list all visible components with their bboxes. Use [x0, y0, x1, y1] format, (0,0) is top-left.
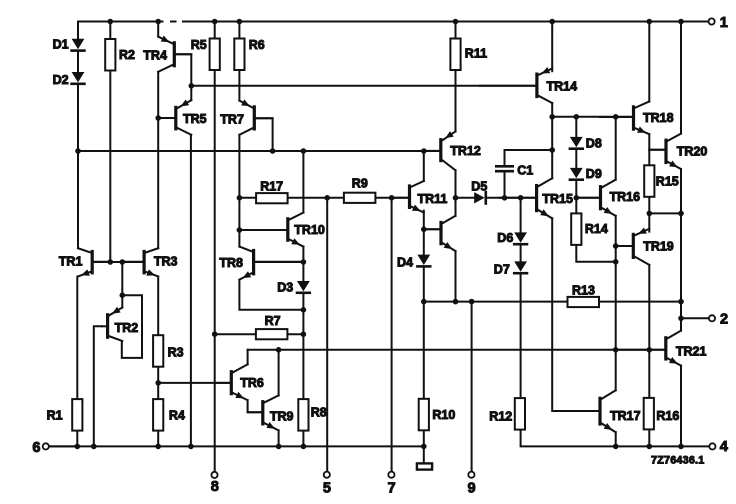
junction R4 bottom on ground rail	[155, 444, 161, 450]
wire TR4 base wire	[174, 54, 191, 86]
wire TR21 emitter lead	[680, 366, 682, 447]
wire TR6 collector riser	[247, 350, 249, 365]
transistor TR4	[173, 43, 176, 66]
transistor TR20	[664, 140, 667, 162]
junction R7 left on terminal8 line	[212, 331, 218, 337]
transistor TR18	[632, 107, 635, 129]
junction C1 top tie	[549, 147, 555, 153]
junction TR20 collector on supply rail	[678, 19, 684, 25]
resistor R4	[153, 399, 163, 431]
svg-text:TR11: TR11	[418, 192, 448, 206]
svg-text:R17: R17	[260, 180, 283, 194]
svg-text:TR3: TR3	[154, 255, 178, 269]
wire D8 top lead	[575, 117, 577, 137]
terminal 8	[211, 472, 217, 478]
resistor R17	[256, 193, 288, 203]
wire TR15 emitter to TR17 base	[552, 218, 598, 411]
wire TR2 base lead down	[94, 326, 102, 446]
junction TR5 collector on ground rail	[188, 444, 194, 450]
svg-text:D8: D8	[586, 137, 602, 151]
wire R10 bottom lead	[423, 431, 425, 447]
wire C1 top lead	[505, 150, 553, 165]
terminal 2	[709, 315, 715, 321]
terminal 1	[709, 18, 715, 24]
wire D1-D2 link	[77, 53, 79, 72]
junction TR8 base on D3 line	[301, 259, 307, 265]
wire R8 bottom lead	[302, 431, 304, 447]
junction TR14 collector rail start	[549, 114, 555, 120]
diode D8	[570, 137, 583, 147]
svg-text:R6: R6	[249, 38, 265, 52]
svg-text:9: 9	[468, 481, 476, 497]
transistor TR19	[632, 234, 635, 257]
junction TR19 base	[613, 243, 619, 249]
wire R3 to R4 node	[157, 367, 159, 400]
wire D5 to TR15 base	[486, 197, 536, 199]
wire TR16 emitter down to TR17 collector	[615, 216, 617, 390]
wire TR8 base lead	[255, 261, 303, 263]
svg-text:TR7: TR7	[220, 112, 244, 126]
svg-text:1: 1	[720, 15, 728, 31]
junction D8 top on rail	[574, 114, 580, 120]
terminal 4	[709, 443, 715, 449]
resistor R7	[256, 329, 288, 339]
wire R2 bottom lead	[109, 71, 111, 262]
wire TR2 emitter stub	[121, 295, 123, 307]
wire TR10 base lead row	[239, 229, 286, 231]
wire long line y=350 to TR21 base	[248, 349, 665, 351]
junction R5 top on supply rail	[212, 19, 218, 25]
junction R8 bottom on ground rail	[301, 444, 307, 450]
diode D1	[72, 39, 85, 49]
resistor R11	[450, 39, 460, 71]
wire TR9 collector riser	[278, 350, 280, 396]
svg-text:D7: D7	[494, 263, 510, 277]
svg-text:R4: R4	[169, 409, 185, 423]
wire R17 left lead	[239, 197, 256, 199]
wire TR19 base lead	[616, 245, 632, 247]
wire TR20 collector riser	[680, 22, 682, 134]
svg-text:4: 4	[720, 439, 729, 455]
junction TR17 collector on line y350	[613, 347, 619, 353]
svg-text:8: 8	[211, 479, 219, 495]
wire node to R16	[648, 350, 650, 398]
junction TR12 collector D5 node	[453, 195, 459, 201]
wire TR10 emitter chain down	[302, 247, 304, 281]
wire terminal 2 lead	[681, 317, 709, 319]
svg-text:TR20: TR20	[677, 144, 708, 158]
wire R9 right lead to TR11 base	[375, 197, 408, 199]
svg-text:TR8: TR8	[219, 256, 243, 270]
junction TR17 emitter on rail	[613, 444, 619, 450]
junction D4 bottom node	[421, 299, 427, 305]
resistor R2	[105, 39, 115, 71]
junction R10 bottom substrate node	[421, 444, 427, 450]
diode D6	[514, 232, 527, 242]
transistor TR13	[439, 223, 442, 244]
transistor TR5	[174, 107, 177, 128]
junction R13 right on TR20 line	[678, 299, 684, 305]
wire TR5 collector down to bottom rail	[190, 135, 192, 447]
junction TR18 collector on supply rail	[647, 19, 653, 25]
wire R4 bottom lead	[157, 430, 159, 446]
wire rail y=151 to TR12 base	[78, 150, 440, 152]
svg-text:R16: R16	[656, 409, 679, 423]
junction R7 right on D3 line	[301, 331, 307, 337]
transistor TR12	[439, 140, 442, 161]
junction TR2 emitter node	[120, 292, 126, 298]
junction TR10 base	[237, 227, 243, 233]
wire top supply rail	[78, 21, 709, 23]
svg-text:C1: C1	[517, 164, 533, 178]
junction TR9 collector on line y350	[276, 347, 282, 353]
svg-text:R13: R13	[572, 284, 595, 298]
junction TR14 emitter on supply rail	[549, 19, 555, 25]
wire terminal 7 line	[391, 198, 393, 472]
svg-text:TR14: TR14	[547, 79, 578, 93]
junction TR5 base	[155, 115, 161, 121]
svg-text:D4: D4	[397, 256, 413, 270]
terminal 6	[43, 443, 49, 449]
resistor R10	[419, 399, 429, 431]
junction TR8 emitter on D3 line	[301, 307, 307, 313]
wire D6 node lead	[520, 198, 522, 233]
resistor R12	[515, 398, 525, 430]
wire TR3 emitter to R3	[157, 277, 159, 336]
junction R17-R9 terminal5 node	[324, 195, 330, 201]
svg-text:TR17: TR17	[610, 409, 641, 423]
resistor R8	[298, 399, 308, 431]
transistor TR2	[106, 315, 109, 337]
junction TR20 emitter tie	[678, 211, 684, 217]
diode D3	[297, 281, 310, 291]
svg-text:TR2: TR2	[115, 321, 139, 335]
transistor TR14	[535, 74, 538, 96]
diode D5	[474, 192, 484, 203]
junction TR16 collector on rail	[613, 114, 619, 120]
svg-text:TR15: TR15	[542, 192, 573, 206]
junction TR7 base wire end	[270, 148, 276, 154]
wire TR16 collector riser	[615, 117, 617, 180]
wire R13 right lead region	[599, 301, 681, 303]
junction R6 top on supply rail	[237, 19, 243, 25]
wire R14 bottom wire	[576, 245, 615, 262]
svg-text:R1: R1	[47, 409, 63, 423]
resistor R9	[344, 193, 376, 203]
diode D2	[72, 72, 85, 82]
resistor R13	[568, 297, 600, 307]
wire rail y=117	[552, 116, 632, 118]
wire node to R8	[302, 334, 304, 399]
svg-text:R10: R10	[432, 408, 455, 422]
transistor TR21	[664, 338, 667, 359]
junction R11 top on supply rail	[453, 19, 459, 25]
svg-text:TR21: TR21	[676, 345, 707, 359]
wire D4 to node y=302	[423, 267, 425, 301]
svg-text:TR4: TR4	[143, 49, 167, 63]
wire TR20 base lead	[649, 149, 664, 151]
wire R14 top lead	[575, 198, 577, 214]
junction R15 bottom	[647, 211, 653, 217]
svg-text:TR19: TR19	[643, 240, 674, 254]
wire D4 node to R10	[423, 302, 425, 399]
wire TR10 collector riser	[302, 151, 304, 213]
diode D7	[514, 261, 527, 271]
transistor TR6	[230, 372, 233, 394]
svg-text:TR16: TR16	[610, 190, 641, 204]
svg-text:R8: R8	[311, 406, 327, 420]
junction R2 top on supply rail	[108, 19, 114, 25]
junction TR12 base tee	[421, 148, 427, 154]
wire left vertical from top rail to D1	[77, 22, 79, 40]
junction TR13 base	[421, 227, 427, 233]
wire TR13 emitter down	[455, 251, 457, 302]
wire TR4 collector to TR5 base and TR3 collector	[157, 72, 159, 248]
junction TR2 base on ground rail	[91, 444, 97, 450]
wire node to TR16 base	[576, 197, 599, 199]
junction R16 bottom on rail	[647, 444, 653, 450]
capacitor C1	[496, 165, 512, 168]
svg-text:TR1: TR1	[59, 255, 83, 269]
wire TR13 base node to D4	[423, 229, 425, 254]
wire TR20 emitter down	[680, 169, 682, 213]
transistor TR3	[143, 252, 146, 273]
junction R1 bottom on ground rail	[75, 444, 81, 450]
wire TR9 emitter lead	[278, 430, 280, 446]
junction TR2 node on base row	[120, 259, 126, 265]
wire TR1 collector riser	[77, 151, 79, 248]
junction D9 bottom R14 top	[574, 195, 580, 201]
svg-text:5: 5	[323, 481, 331, 497]
svg-text:7Z76436.1: 7Z76436.1	[651, 454, 704, 466]
wire D9 to node	[575, 180, 577, 198]
transistor TR16	[599, 187, 602, 209]
junction terminal 9 node	[469, 299, 475, 305]
wire TR1 emitter to R1	[76, 277, 78, 400]
resistor R15	[644, 165, 654, 197]
wire TR13 base lead	[424, 228, 440, 230]
wire TR4 emitter riser	[157, 22, 159, 37]
wire R12 bottom to rail	[521, 430, 710, 446]
svg-text:2: 2	[720, 312, 728, 328]
wire D2 to node at y=151	[77, 86, 79, 151]
svg-text:D1: D1	[53, 37, 69, 51]
junction R9-TR11 base terminal7 node	[389, 195, 395, 201]
wire TR18 emitter down	[648, 134, 650, 165]
svg-text:6: 6	[32, 440, 40, 456]
resistor R3	[153, 335, 163, 367]
wire TR7 collector down to TR8	[238, 135, 240, 247]
svg-text:D5: D5	[471, 179, 487, 193]
junction D6 top on D5 node	[518, 195, 524, 201]
wire TR19 emitter riser	[648, 213, 650, 231]
svg-text:TR9: TR9	[270, 410, 294, 424]
transistor TR7	[253, 107, 256, 129]
wire TR2 mirror loop	[122, 295, 142, 358]
diode D4	[417, 255, 430, 265]
svg-text:TR18: TR18	[643, 111, 674, 125]
wire R5 to terminal 8 long line	[214, 70, 216, 472]
svg-text:D9: D9	[586, 167, 602, 181]
wire TR14 collector down	[551, 103, 553, 178]
wire TR11 emitter to TR13 base	[423, 211, 425, 230]
wire TR14 emitter riser	[551, 22, 553, 72]
transistor TR9	[261, 402, 264, 424]
wire rail y=86 to TR14 base	[191, 85, 536, 87]
svg-text:R14: R14	[585, 222, 608, 236]
junction terminal 2 tee	[678, 316, 684, 322]
junction TR21 emitter on rail	[678, 444, 684, 450]
wire TR6 emitter to TR9 base	[248, 400, 262, 412]
junction R17 left	[237, 195, 243, 201]
junction D2 chain at wire y151	[75, 148, 81, 154]
junction TR4 emitter on supply rail	[155, 19, 161, 25]
terminal 5	[324, 472, 330, 478]
junction TR13 emitter node	[453, 299, 459, 305]
wire R15-TR20 emitter tie	[649, 212, 681, 214]
wire terminal 5 line	[326, 198, 328, 472]
wire TR2 emitter node riser	[121, 262, 123, 295]
transistor TR10	[286, 219, 289, 240]
svg-text:TR12: TR12	[450, 144, 481, 158]
substrate terminal box	[417, 463, 432, 469]
wire D5 node row	[456, 197, 475, 199]
wire TR20 line down to TR21	[680, 213, 682, 330]
wire TR19 collector down	[648, 265, 650, 350]
wire D8-D9 link	[575, 149, 577, 168]
svg-text:R2: R2	[119, 48, 135, 62]
svg-text:R3: R3	[168, 346, 184, 360]
wire bottom rail left	[49, 445, 424, 447]
transistor TR17	[598, 398, 601, 424]
wire TR5 emitter stub	[190, 86, 192, 100]
wire TR11 collector riser	[423, 151, 425, 181]
junction TR10 collector on wire y151	[301, 148, 307, 154]
wire R6 top lead	[238, 22, 240, 39]
svg-text:R5: R5	[191, 38, 207, 52]
junction TR9 emitter on ground rail	[276, 444, 282, 450]
svg-text:R7: R7	[265, 314, 281, 328]
wire R3R4 node to TR6 base	[158, 382, 230, 384]
resistor R5	[210, 39, 220, 71]
wire R5 top lead	[214, 22, 216, 39]
resistor R1	[72, 399, 82, 431]
wire R11 top lead	[455, 22, 457, 39]
resistor R6	[234, 39, 244, 71]
junction R14 bottom	[613, 259, 619, 265]
wire R1 bottom lead	[76, 430, 78, 446]
wire TR18 collector riser	[648, 22, 650, 102]
resistor R14	[571, 213, 581, 245]
transistor TR1	[91, 252, 94, 273]
wire R2 top lead	[109, 22, 111, 39]
wire TR8 emitter path	[239, 280, 303, 310]
svg-text:D3: D3	[277, 280, 293, 294]
svg-text:D2: D2	[53, 73, 69, 87]
wire R16 bottom lead	[648, 430, 650, 446]
svg-text:TR10: TR10	[294, 223, 325, 237]
wire TR1-TR3 base row	[92, 261, 144, 263]
terminal 9	[468, 472, 474, 478]
wire C1 bottom lead	[504, 172, 506, 198]
transistor TR15	[535, 186, 538, 211]
wire top rail gap marks	[164, 20, 171, 24]
wire node y=302 row	[424, 301, 568, 303]
resistor R16	[644, 398, 654, 430]
svg-text:7: 7	[388, 481, 396, 497]
wire TR7 base wire	[256, 118, 273, 151]
wire D3 to node y=310	[302, 294, 304, 335]
wire terminal 9 line	[471, 302, 473, 472]
wire R7 row	[215, 333, 304, 335]
wire R15 bottom lead	[648, 198, 650, 214]
wire D7 to R12	[520, 274, 522, 397]
wire R11 bottom to TR12 emitter	[455, 70, 457, 132]
terminal 7	[388, 472, 394, 478]
wire TR17 emitter lead	[615, 432, 617, 446]
svg-text:TR5: TR5	[183, 112, 207, 126]
transistor TR11	[408, 186, 411, 207]
wire D6-D7 link	[520, 245, 522, 262]
wire R6 bottom to TR7 emitter	[238, 70, 240, 101]
svg-text:TR6: TR6	[240, 376, 264, 390]
svg-text:R9: R9	[352, 177, 368, 191]
junction R3-R4 node	[155, 380, 161, 386]
junction TR5 emitter node	[189, 83, 195, 89]
wire TR12 collector to D5 node	[455, 170, 457, 216]
junction TR19 collector on line y350	[647, 347, 653, 353]
svg-text:R11: R11	[465, 47, 487, 61]
diode D9	[570, 168, 583, 178]
transistor TR8	[252, 251, 255, 274]
wire substrate stub	[423, 446, 425, 463]
svg-text:R12: R12	[489, 410, 512, 424]
svg-text:D6: D6	[497, 231, 513, 245]
junction R2 bottom base row	[108, 259, 114, 265]
svg-text:R15: R15	[656, 175, 679, 189]
junction C1 bottom on D5 node	[502, 195, 508, 201]
wire R17 right lead to R9	[287, 197, 344, 199]
